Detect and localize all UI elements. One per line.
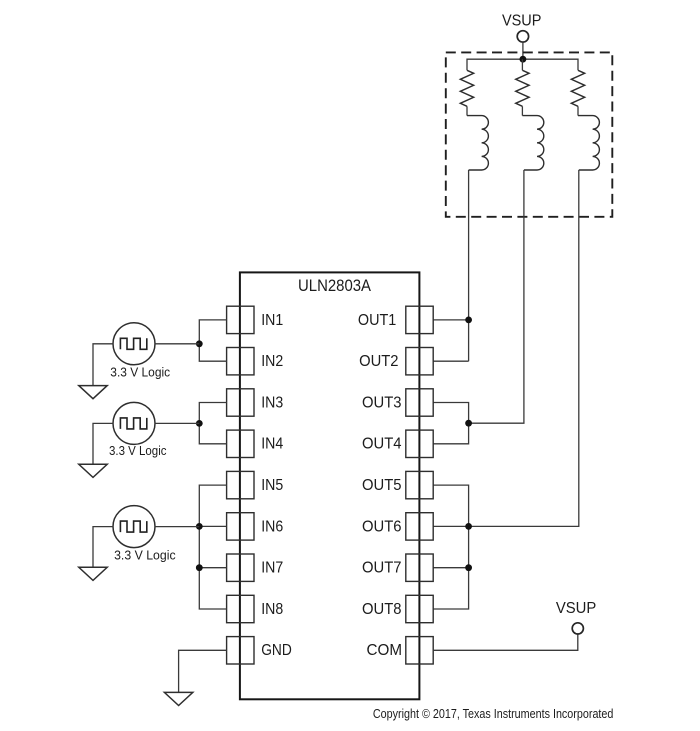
pin box OUT8 <box>406 595 433 622</box>
junction dot OUT3/OUT4 <box>465 420 472 427</box>
junction dot IN6 <box>196 523 203 530</box>
resistor load 2 <box>516 70 529 106</box>
pin box IN8 <box>227 595 254 622</box>
pin box IN2 <box>227 348 254 375</box>
wire OUT5-OUT8 tie <box>433 485 468 609</box>
svg-text:IN4: IN4 <box>261 436 283 453</box>
svg-text:3.3 V Logic: 3.3 V Logic <box>110 364 170 379</box>
junction dot OUT7 <box>465 564 472 571</box>
inductor load 3 <box>578 116 599 170</box>
resistor load 1 <box>460 70 473 106</box>
wire V3 output <box>155 526 199 528</box>
svg-text:IN3: IN3 <box>261 394 283 411</box>
wire IN5-IN8 tie <box>199 485 226 609</box>
svg-text:OUT7: OUT7 <box>362 560 402 577</box>
svg-text:3.3 V Logic: 3.3 V Logic <box>109 443 167 458</box>
junction dot on bus <box>520 56 527 63</box>
ground symbol source 2 <box>79 464 107 477</box>
svg-text:OUT1: OUT1 <box>358 312 396 329</box>
pin box OUT5 <box>406 471 433 498</box>
signal source V3 (3.3 V logic) <box>113 506 155 548</box>
wire OUT6 stub <box>433 525 468 527</box>
junction dot OUT6 <box>465 523 472 530</box>
pin box IN7 <box>227 554 254 581</box>
wire V2 output <box>155 422 199 424</box>
square-wave glyph V3 <box>120 521 146 532</box>
ground symbol source 1 <box>79 386 107 399</box>
wire IN1-IN2 tie <box>199 320 226 361</box>
svg-text:VSUP: VSUP <box>556 600 597 617</box>
resistor load 3 <box>571 70 584 106</box>
wire OUT2 stub <box>433 360 468 362</box>
pin box IN5 <box>227 471 254 498</box>
svg-text:GND: GND <box>261 642 292 659</box>
pin box OUT7 <box>406 554 433 581</box>
junction dot IN7 <box>196 564 203 571</box>
wire load1 to OUT1/OUT2 <box>468 170 470 361</box>
pin box IN3 <box>227 389 254 416</box>
svg-text:VSUP: VSUP <box>502 13 542 30</box>
inductor load 2 <box>522 116 543 170</box>
pin box OUT1 <box>406 306 433 333</box>
svg-text:ULN2803A: ULN2803A <box>298 277 371 295</box>
pin box OUT3 <box>406 389 433 416</box>
svg-text:3.3 V Logic: 3.3 V Logic <box>114 547 176 562</box>
svg-text:IN1: IN1 <box>261 312 283 329</box>
svg-text:OUT8: OUT8 <box>362 601 402 618</box>
svg-text:IN6: IN6 <box>261 518 283 535</box>
wire OUT3-OUT4 tie <box>433 403 468 444</box>
pin box IN6 <box>227 513 254 540</box>
junction dot IN1/IN2 <box>196 340 203 347</box>
signal source V1 (3.3 V logic) <box>113 323 155 365</box>
pin box COM <box>406 637 433 664</box>
wire load2 down <box>469 170 524 423</box>
signal source V2 (3.3 V logic) <box>113 402 155 444</box>
wire load3 down <box>469 170 579 526</box>
pin box IN1 <box>227 306 254 333</box>
junction dot OUT1 <box>465 317 472 324</box>
svg-text:IN8: IN8 <box>261 601 283 618</box>
svg-text:OUT5: OUT5 <box>362 477 402 494</box>
wire V2 to ground <box>93 423 113 464</box>
wire VSUP to bus <box>522 42 524 59</box>
wire IN7 stub <box>199 567 226 569</box>
wire V3 to ground <box>93 527 113 568</box>
svg-text:IN5: IN5 <box>261 477 283 494</box>
pin box IN4 <box>227 430 254 457</box>
square-wave glyph V1 <box>120 338 146 349</box>
svg-text:OUT6: OUT6 <box>362 518 402 535</box>
terminal VSUP (top) <box>517 31 528 42</box>
IC U1 ULN2803A body <box>240 272 420 699</box>
pin box OUT4 <box>406 430 433 457</box>
wire R3 to L3 <box>577 106 579 115</box>
pin box GND <box>227 637 254 664</box>
svg-text:COM: COM <box>367 642 403 659</box>
svg-text:IN2: IN2 <box>261 353 283 370</box>
svg-text:IN7: IN7 <box>261 560 283 577</box>
ground symbol source 3 <box>79 567 107 580</box>
junction dot IN3/IN4 <box>196 420 203 427</box>
svg-text:OUT3: OUT3 <box>362 394 402 411</box>
pin box OUT6 <box>406 513 433 540</box>
wire COM to VSUP terminal <box>433 634 578 650</box>
wire supply bus <box>467 59 578 70</box>
wire R1 to L1 <box>466 106 468 115</box>
load enclosure (dashed box) <box>446 52 613 216</box>
wire R2 to L2 <box>521 106 523 115</box>
pin box OUT2 <box>406 348 433 375</box>
svg-text:Copyright © 2017, Texas Instru: Copyright © 2017, Texas Instruments Inco… <box>373 706 614 721</box>
wire GND pin to ground <box>179 650 227 692</box>
svg-text:OUT2: OUT2 <box>359 353 398 370</box>
square-wave glyph V2 <box>120 418 146 429</box>
wire V1 to ground <box>93 344 113 386</box>
svg-text:OUT4: OUT4 <box>362 436 402 453</box>
wire IN3-IN4 tie <box>199 403 226 444</box>
wire IN6 stub <box>199 525 226 527</box>
wire OUT1 stub <box>433 319 468 321</box>
wire OUT7 stub <box>433 567 468 569</box>
inductor load 1 <box>467 116 488 170</box>
ground symbol GND <box>164 692 192 705</box>
wire bus drop to R2 <box>521 59 523 70</box>
terminal VSUP (right) <box>572 623 583 634</box>
wire V1 output <box>155 343 199 345</box>
